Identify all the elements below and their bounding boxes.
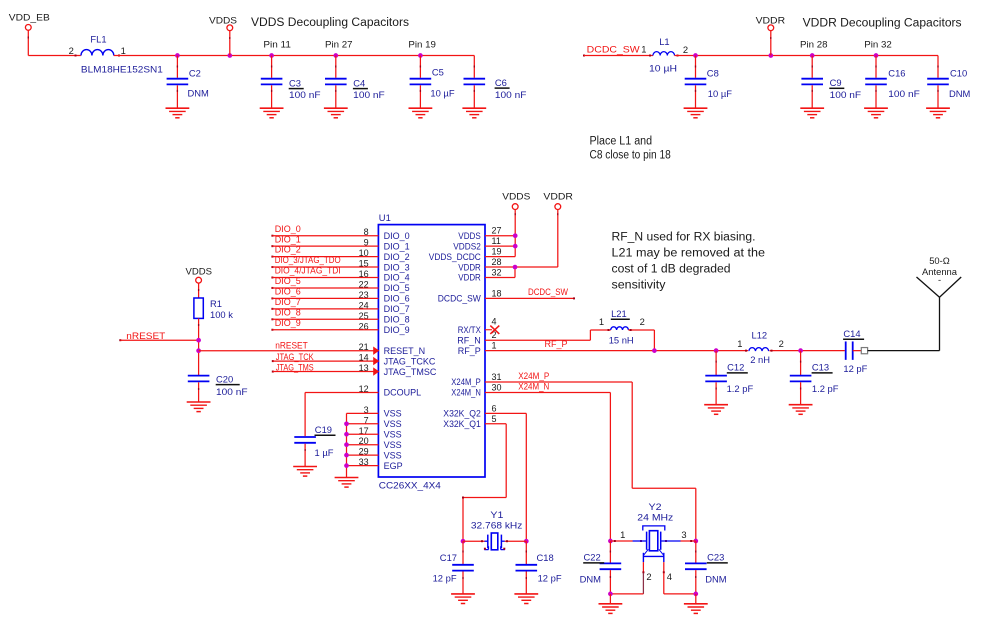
svg-text:X24M_N: X24M_N	[451, 388, 481, 398]
svg-text:L21 may be removed at the: L21 may be removed at the	[612, 247, 766, 259]
svg-text:VDDS: VDDS	[186, 265, 213, 276]
svg-text:Pin 11: Pin 11	[263, 39, 291, 50]
svg-text:DIO_4: DIO_4	[384, 273, 410, 283]
svg-text:VDDS: VDDS	[209, 15, 237, 26]
svg-text:DIO_0: DIO_0	[275, 224, 301, 234]
svg-text:C17: C17	[440, 552, 457, 563]
svg-text:R1: R1	[210, 298, 222, 309]
svg-text:DIO_4/JTAG_TDI: DIO_4/JTAG_TDI	[275, 266, 341, 276]
svg-text:X24M_P: X24M_P	[518, 371, 549, 381]
svg-text:VDDR Decoupling Capacitors: VDDR Decoupling Capacitors	[803, 17, 962, 29]
svg-text:X32K_Q2: X32K_Q2	[443, 409, 481, 419]
svg-text:11: 11	[492, 236, 501, 246]
svg-text:1: 1	[620, 529, 625, 540]
svg-text:C4: C4	[353, 77, 365, 88]
svg-text:30: 30	[492, 382, 502, 392]
svg-text:27: 27	[492, 226, 502, 236]
svg-text:C16: C16	[888, 67, 905, 78]
svg-text:JTAG_TMSC: JTAG_TMSC	[384, 367, 437, 377]
svg-text:1: 1	[641, 44, 646, 55]
svg-text:JTAG_TMS: JTAG_TMS	[276, 363, 314, 373]
svg-text:6: 6	[492, 403, 497, 413]
svg-text:nRESET: nRESET	[126, 331, 166, 341]
svg-text:Pin 32: Pin 32	[864, 39, 892, 50]
svg-text:32: 32	[492, 268, 502, 278]
svg-text:28: 28	[492, 257, 502, 267]
svg-text:DIO_1: DIO_1	[384, 241, 410, 251]
svg-text:DNM: DNM	[580, 574, 602, 585]
svg-text:RF_N used for RX biasing.: RF_N used for RX biasing.	[612, 231, 756, 243]
svg-text:VSS: VSS	[384, 429, 402, 439]
svg-text:sensitivity: sensitivity	[612, 279, 666, 291]
svg-text:Pin 27: Pin 27	[325, 39, 353, 50]
svg-text:100 nF: 100 nF	[888, 88, 920, 99]
svg-text:VSS: VSS	[384, 440, 402, 450]
svg-text:C14: C14	[843, 328, 860, 339]
svg-text:DIO_8: DIO_8	[384, 315, 410, 325]
svg-text:DNM: DNM	[188, 88, 210, 99]
svg-text:C2: C2	[189, 67, 201, 78]
svg-text:10 µF: 10 µF	[708, 88, 732, 99]
svg-text:100 nF: 100 nF	[216, 386, 248, 397]
svg-text:2: 2	[683, 44, 688, 55]
svg-text:RESET_N: RESET_N	[384, 346, 426, 356]
svg-text:VDDS: VDDS	[502, 190, 530, 201]
svg-text:1: 1	[121, 45, 126, 56]
svg-text:C12: C12	[727, 362, 744, 373]
svg-text:10 µH: 10 µH	[649, 63, 677, 74]
svg-text:JTAG_TCKC: JTAG_TCKC	[384, 356, 436, 366]
svg-text:100 nF: 100 nF	[289, 89, 321, 100]
svg-text:-: -	[938, 274, 941, 285]
svg-text:L21: L21	[611, 308, 627, 319]
svg-text:VDDR: VDDR	[543, 190, 573, 201]
svg-text:CC26XX_4X4: CC26XX_4X4	[379, 479, 441, 490]
svg-text:DIO_5: DIO_5	[275, 276, 301, 286]
svg-text:5: 5	[492, 414, 497, 424]
svg-text:C8 close to pin 18: C8 close to pin 18	[590, 150, 671, 162]
svg-text:Y2: Y2	[649, 501, 662, 512]
svg-text:C22: C22	[584, 552, 601, 563]
svg-text:1 µF: 1 µF	[315, 447, 334, 458]
svg-text:4: 4	[667, 571, 672, 582]
svg-text:VDDS Decoupling Capacitors: VDDS Decoupling Capacitors	[251, 17, 409, 29]
svg-text:DIO_9: DIO_9	[384, 325, 410, 335]
svg-text:15 nH: 15 nH	[609, 335, 634, 346]
svg-text:12 pF: 12 pF	[433, 573, 457, 584]
svg-text:DIO_0: DIO_0	[384, 231, 410, 241]
svg-text:VDDR: VDDR	[756, 15, 786, 26]
svg-text:1: 1	[599, 316, 604, 327]
svg-text:12 pF: 12 pF	[843, 363, 867, 374]
svg-text:RF_N: RF_N	[457, 335, 481, 345]
svg-text:BLM18HE152SN1: BLM18HE152SN1	[81, 64, 163, 75]
svg-text:DCDC_SW: DCDC_SW	[528, 287, 568, 297]
svg-text:C23: C23	[707, 552, 724, 563]
svg-text:31: 31	[492, 372, 502, 382]
svg-text:DIO_2: DIO_2	[275, 245, 301, 255]
svg-text:DIO_6: DIO_6	[275, 287, 301, 297]
svg-text:C10: C10	[950, 67, 967, 78]
svg-text:1: 1	[492, 341, 497, 351]
svg-text:L12: L12	[752, 330, 768, 341]
svg-text:DIO_8: DIO_8	[275, 307, 301, 317]
svg-text:C6: C6	[495, 77, 507, 88]
svg-text:C5: C5	[432, 67, 444, 78]
svg-text:VDD_EB: VDD_EB	[9, 12, 50, 23]
svg-text:100 nF: 100 nF	[353, 89, 385, 100]
svg-text:2: 2	[646, 571, 651, 582]
svg-text:JTAG_TCK: JTAG_TCK	[276, 352, 314, 362]
svg-text:RF_P: RF_P	[545, 339, 568, 349]
svg-text:C3: C3	[289, 77, 301, 88]
svg-text:VSS: VSS	[384, 419, 402, 429]
svg-text:DIO_5: DIO_5	[384, 283, 410, 293]
svg-text:DIO_3: DIO_3	[384, 262, 410, 272]
svg-text:DCDC_SW: DCDC_SW	[438, 294, 481, 304]
svg-text:VSS: VSS	[384, 409, 402, 419]
svg-text:FL1: FL1	[90, 34, 106, 45]
svg-text:Pin 28: Pin 28	[800, 39, 828, 50]
svg-text:C18: C18	[537, 552, 554, 563]
svg-text:3: 3	[681, 529, 686, 540]
svg-text:DIO_1: DIO_1	[275, 234, 301, 244]
svg-text:2: 2	[779, 338, 784, 349]
svg-text:Place L1 and: Place L1 and	[590, 135, 653, 147]
svg-text:32.768 kHz: 32.768 kHz	[471, 520, 523, 531]
svg-text:RF_P: RF_P	[458, 346, 481, 356]
svg-text:DIO_9: DIO_9	[275, 318, 301, 328]
svg-text:C13: C13	[812, 362, 829, 373]
svg-text:24 MHz: 24 MHz	[637, 512, 673, 523]
svg-text:DCOUPL: DCOUPL	[384, 388, 422, 398]
svg-text:10 µF: 10 µF	[430, 88, 454, 99]
svg-text:VDDS2: VDDS2	[453, 241, 481, 251]
svg-text:DIO_6: DIO_6	[384, 294, 410, 304]
svg-text:X32K_Q1: X32K_Q1	[443, 419, 481, 429]
svg-text:X24M_P: X24M_P	[451, 377, 481, 387]
svg-text:U1: U1	[379, 212, 391, 223]
svg-text:19: 19	[492, 247, 502, 257]
svg-text:X24M_N: X24M_N	[518, 381, 549, 391]
svg-text:L1: L1	[659, 36, 669, 47]
svg-text:18: 18	[492, 288, 502, 298]
svg-text:RX/TX: RX/TX	[458, 325, 481, 335]
svg-text:50-Ω: 50-Ω	[929, 255, 950, 266]
svg-text:EGP: EGP	[384, 461, 403, 471]
svg-text:2 nH: 2 nH	[750, 354, 770, 365]
svg-text:1.2 pF: 1.2 pF	[727, 383, 754, 394]
svg-text:C19: C19	[315, 424, 332, 435]
svg-text:12 pF: 12 pF	[538, 573, 562, 584]
svg-text:2: 2	[69, 45, 74, 56]
svg-text:DNM: DNM	[949, 88, 971, 99]
svg-text:C20: C20	[216, 373, 233, 384]
svg-text:Pin 19: Pin 19	[408, 39, 436, 50]
svg-text:1.2 pF: 1.2 pF	[812, 383, 839, 394]
svg-text:2: 2	[640, 316, 645, 327]
svg-text:VDDR: VDDR	[458, 262, 481, 272]
svg-text:VDDS_DCDC: VDDS_DCDC	[429, 252, 481, 262]
svg-text:C9: C9	[830, 77, 842, 88]
svg-text:DNM: DNM	[705, 574, 727, 585]
svg-text:DIO_3/JTAG_TDO: DIO_3/JTAG_TDO	[275, 255, 341, 265]
svg-text:VDDR: VDDR	[458, 273, 481, 283]
svg-text:DIO_7: DIO_7	[384, 304, 410, 314]
svg-text:100 nF: 100 nF	[495, 89, 527, 100]
svg-text:DCDC_SW: DCDC_SW	[587, 45, 641, 55]
svg-text:cost of 1 dB degraded: cost of 1 dB degraded	[612, 263, 731, 275]
svg-text:DIO_7: DIO_7	[275, 297, 301, 307]
svg-text:nRESET: nRESET	[275, 340, 308, 350]
svg-text:VDDS: VDDS	[458, 231, 481, 241]
svg-text:VSS: VSS	[384, 450, 402, 460]
svg-text:C8: C8	[707, 67, 719, 78]
svg-text:Y1: Y1	[490, 509, 503, 520]
svg-text:DIO_2: DIO_2	[384, 252, 410, 262]
svg-text:1: 1	[737, 338, 742, 349]
svg-text:100 k: 100 k	[210, 309, 233, 320]
svg-text:4: 4	[492, 316, 497, 326]
svg-text:100 nF: 100 nF	[830, 89, 862, 100]
